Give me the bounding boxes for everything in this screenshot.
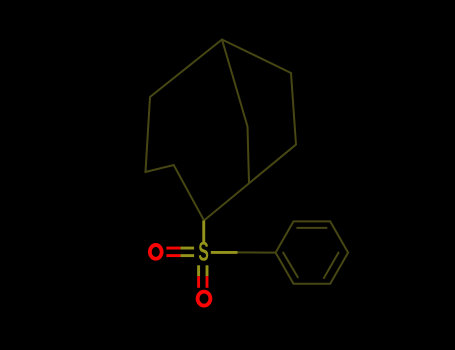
- svg-text:S: S: [198, 236, 209, 266]
